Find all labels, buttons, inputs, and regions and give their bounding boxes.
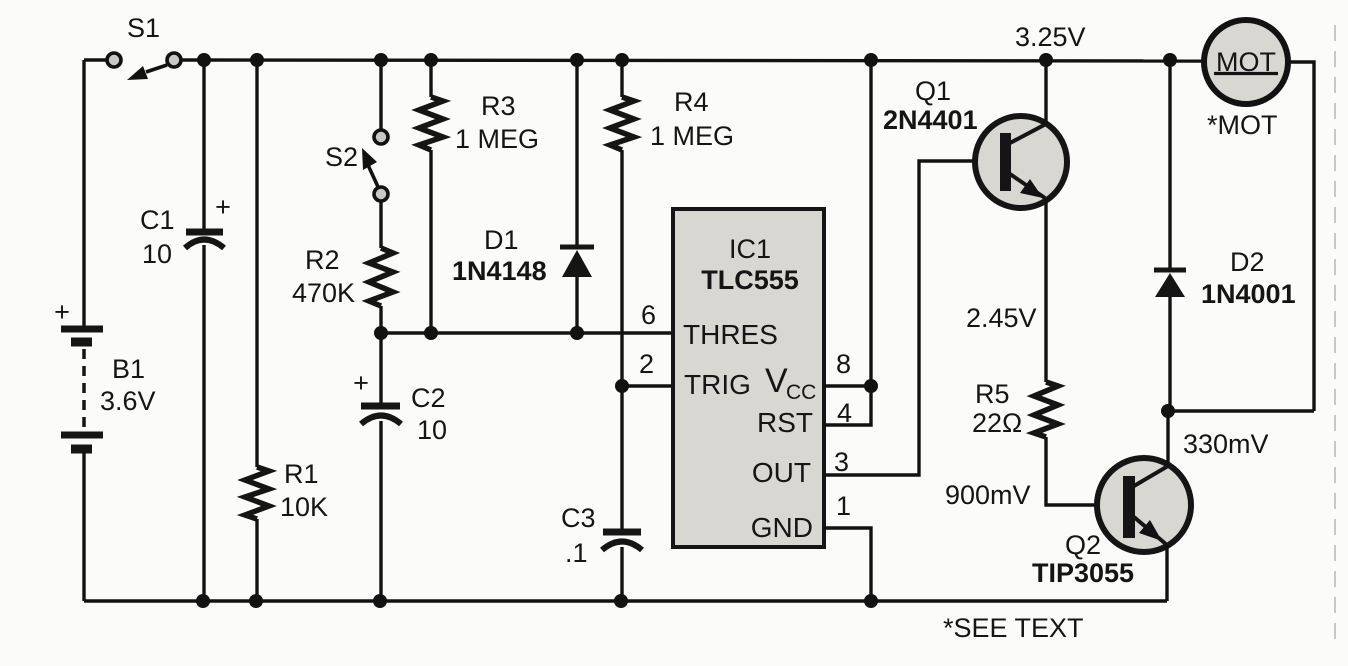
svg-text:C3: C3: [561, 503, 596, 533]
svg-text:IC1: IC1: [729, 234, 771, 264]
diode D2: [1154, 270, 1186, 297]
junction top rail / R4: [615, 53, 629, 67]
capacitor C2: [361, 406, 401, 424]
capacitor C1: [185, 232, 224, 248]
wire D1 branch upper: [575, 60, 578, 249]
wire TRIG net: [622, 384, 673, 387]
wire left vertical upper: [82, 60, 85, 326]
wire C1 branch upper: [202, 60, 205, 229]
svg-text:S2: S2: [325, 142, 358, 172]
wire bottom rail: [84, 599, 1167, 602]
resistor R2: [369, 248, 393, 306]
junction Vcc node: [864, 379, 878, 393]
junction top rail / D1: [570, 53, 584, 67]
wire RST pin 4: [824, 388, 871, 425]
wire R1 branch lower: [255, 519, 258, 601]
svg-text:3: 3: [834, 447, 849, 477]
svg-text:R5: R5: [975, 379, 1010, 409]
motor MOT: [1204, 20, 1288, 104]
svg-text:+: +: [54, 297, 70, 327]
svg-text:C1: C1: [140, 205, 175, 235]
op-amp IC1 body: [673, 209, 824, 547]
svg-text:CC: CC: [786, 381, 816, 404]
svg-text:1: 1: [836, 491, 851, 521]
resistor R5: [1034, 382, 1058, 437]
wire C3 lower: [620, 547, 623, 601]
wire R1 branch upper: [255, 60, 258, 467]
wire S2 to R2: [379, 201, 382, 248]
wire D2 branch lower: [1168, 297, 1171, 411]
svg-text:10K: 10K: [280, 492, 328, 522]
svg-text:Q2: Q2: [1065, 530, 1101, 560]
capacitor C3: [602, 532, 642, 550]
wire R4 branch lower: [620, 150, 623, 530]
svg-text:D2: D2: [1230, 247, 1265, 277]
svg-text:OUT: OUT: [752, 457, 811, 488]
svg-text:*SEE TEXT: *SEE TEXT: [943, 613, 1084, 643]
junction R2 / THRES: [374, 326, 388, 340]
svg-text:TRIG: TRIG: [684, 369, 751, 400]
junction top rail / C1: [197, 53, 211, 67]
svg-text:R4: R4: [674, 87, 709, 117]
junction top rail / Vcc: [864, 53, 878, 67]
wire R5 to Q2 base: [1046, 437, 1123, 505]
transistor Q2: [1097, 458, 1191, 552]
svg-text:3.6V: 3.6V: [100, 386, 156, 416]
svg-text:*MOT: *MOT: [1207, 110, 1278, 140]
svg-text:1 MEG: 1 MEG: [455, 124, 539, 154]
svg-text:2N4401: 2N4401: [883, 105, 978, 135]
svg-text:D1: D1: [484, 225, 519, 255]
wire left vertical lower: [82, 453, 85, 601]
svg-text:Q1: Q1: [915, 76, 951, 106]
wire Vcc vertical: [869, 60, 872, 386]
wire Vcc pin 8: [824, 384, 871, 387]
pin label Vcc: [765, 362, 816, 404]
svg-text:1N4148: 1N4148: [452, 256, 547, 286]
wire node to motor return: [1168, 409, 1314, 412]
svg-text:470K: 470K: [292, 278, 355, 308]
svg-text:+: +: [215, 192, 231, 222]
resistor R3: [419, 97, 443, 150]
battery B1: [61, 329, 103, 449]
svg-text:R3: R3: [481, 91, 516, 121]
svg-text:THRES: THRES: [683, 319, 778, 350]
junction top rail / R1: [250, 53, 264, 67]
wire top rail left stub: [84, 58, 108, 61]
svg-text:GND: GND: [751, 512, 813, 543]
svg-text:R1: R1: [284, 459, 319, 489]
resistor R1: [245, 467, 269, 519]
wire R4 branch upper: [620, 60, 623, 97]
wire motor return: [1286, 62, 1314, 411]
svg-text:8: 8: [836, 349, 851, 379]
junction bottom rail / C3: [614, 594, 628, 608]
svg-text:+: +: [353, 368, 369, 398]
wire top rail: [181, 60, 1206, 61]
junction Q2 collector node: [1161, 404, 1175, 418]
wire C1 branch lower: [202, 245, 205, 601]
wire GND pin 1: [824, 528, 871, 601]
diode D1: [560, 247, 594, 277]
wire OUT pin 3 to Q1 base: [824, 161, 1000, 475]
wire Q1 emitter to R5: [1044, 200, 1047, 382]
svg-text:330mV: 330mV: [1183, 429, 1269, 459]
svg-text:B1: B1: [112, 354, 145, 384]
wire C2 lower: [379, 421, 382, 601]
junction R3 / THRES: [424, 326, 438, 340]
wire R2 to junction: [379, 306, 382, 404]
wire S2 branch upper: [379, 60, 382, 129]
wire R3 branch upper: [429, 60, 432, 97]
junction top rail / S2: [374, 53, 388, 67]
resistor R4: [610, 97, 634, 150]
svg-text:1 MEG: 1 MEG: [650, 121, 734, 151]
svg-text:6: 6: [641, 300, 656, 330]
svg-text:3.25V: 3.25V: [1015, 22, 1086, 52]
svg-text:2.45V: 2.45V: [966, 303, 1037, 333]
switch S2: [362, 130, 388, 201]
svg-text:TLC555: TLC555: [701, 265, 799, 295]
svg-text:900mV: 900mV: [945, 480, 1031, 510]
wire Q2 emitter: [1165, 545, 1168, 601]
wire Q1 collector: [1044, 60, 1047, 124]
junction top rail / R3: [424, 53, 438, 67]
wire D1 branch lower: [575, 277, 578, 333]
svg-text:RST: RST: [757, 407, 813, 438]
svg-text:2: 2: [639, 349, 654, 379]
junction top rail / D2: [1163, 53, 1177, 67]
wire D2 branch upper: [1168, 60, 1171, 271]
svg-text:S1: S1: [127, 13, 160, 43]
wire THRES net: [381, 331, 673, 334]
svg-text:.1: .1: [565, 538, 588, 568]
junction bottom rail / C2: [373, 594, 387, 608]
svg-text:C2: C2: [411, 383, 446, 413]
transistor Q1: [975, 116, 1067, 208]
junction bottom rail / R1: [249, 594, 263, 608]
svg-text:22Ω: 22Ω: [972, 408, 1022, 438]
wire Q2 collector: [1166, 411, 1169, 466]
wire R3 branch lower: [429, 150, 432, 333]
svg-text:1N4001: 1N4001: [1201, 279, 1296, 309]
svg-text:V: V: [765, 362, 788, 400]
svg-text:10: 10: [142, 239, 172, 269]
svg-text:10: 10: [417, 415, 447, 445]
junction D1 / THRES: [570, 326, 584, 340]
switch S1: [107, 53, 181, 80]
junction bottom rail / C1: [196, 594, 210, 608]
junction R4 / TRIG: [615, 379, 629, 393]
junction top rail / Q1 collector: [1039, 53, 1053, 67]
svg-text:R2: R2: [305, 245, 340, 275]
svg-text:TIP3055: TIP3055: [1032, 558, 1134, 588]
junction bottom rail / GND: [864, 594, 878, 608]
